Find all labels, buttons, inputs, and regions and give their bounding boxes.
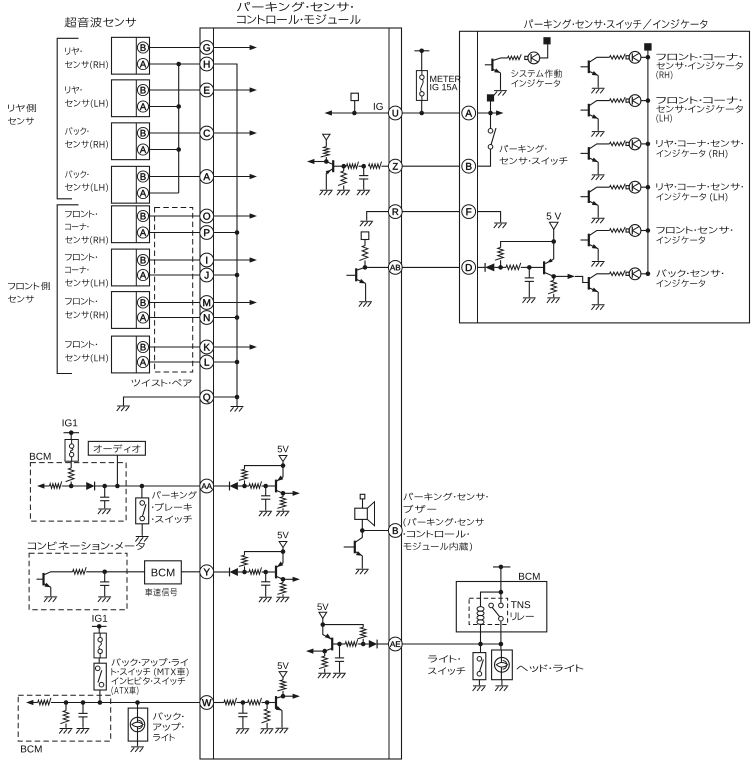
junction 5V node Y	[281, 549, 286, 554]
feed stub IG1 lower	[92, 625, 107, 627]
transistor collector AA	[276, 490, 283, 493]
wire sensor B to pin O	[148, 215, 199, 217]
junction A common top	[176, 62, 181, 67]
transistor Q-led rear corner RH emitter with arrow	[589, 158, 598, 162]
label METER	[430, 76, 460, 82]
label BCM right	[519, 573, 540, 580]
wire sensor A(back LH) to common	[148, 192, 178, 194]
wire lamp to ground	[137, 741, 139, 746]
wire D output arrow to LED6 base	[554, 275, 569, 277]
transistor Q-led back emitter with arrow	[589, 288, 598, 292]
wire relay output to head light	[500, 621, 502, 650]
junction A back RH	[176, 147, 181, 152]
transistor Q-AB emitter with arrow	[356, 279, 365, 283]
label IG1 lower	[93, 615, 108, 622]
feed stub TNS	[493, 566, 510, 568]
ground R interior	[360, 221, 373, 226]
label head light	[516, 664, 583, 672]
feed stub with junction	[414, 50, 429, 52]
label front side sensors line1	[8, 282, 50, 290]
junction shield at P	[235, 230, 240, 235]
transistor Q-AB base stub	[346, 274, 356, 276]
transistor Q-led front corner RH base bar	[588, 61, 590, 74]
wire node to emitter	[553, 242, 555, 260]
ground light switch	[473, 686, 486, 691]
LED system indicator	[528, 52, 540, 64]
wire fuse to switch	[98, 658, 100, 663]
module pin K	[200, 340, 214, 354]
resistor Z series 2	[369, 162, 382, 169]
indicator pin B	[462, 159, 476, 173]
wire	[243, 702, 248, 704]
label front corner sensor LH line2	[65, 266, 88, 273]
label system indicator line2	[511, 79, 560, 87]
label rear sensor LH line2	[65, 99, 108, 107]
wire feedback resistor	[500, 260, 502, 267]
capacitor meter filter	[104, 572, 106, 582]
wire fuse to resistor	[70, 461, 72, 468]
transistor Q-meter base bar	[42, 573, 44, 586]
wire pin AB to pin D	[402, 266, 460, 268]
wire LED to common line	[641, 273, 648, 275]
transistor Q-meter emitter with arrow	[44, 584, 51, 588]
wire	[62, 485, 86, 487]
switch contact lower	[140, 516, 145, 521]
wire buzzer node to pin B	[362, 530, 389, 532]
junction LED common front corner LH	[646, 98, 651, 103]
capacitor W ext filter	[82, 703, 84, 714]
5V supply triangle D	[549, 222, 558, 229]
LED common supply line	[647, 50, 649, 273]
transistor Q-AE collector	[325, 648, 333, 651]
wire triangle to resistor	[325, 140, 327, 147]
label BCM mid	[152, 569, 175, 577]
ground emitter resistor Y	[276, 597, 289, 602]
capacitor D filter	[528, 267, 530, 278]
transistor Q-led front corner RH emitter with arrow	[589, 71, 598, 75]
parking sensor control module box	[200, 28, 402, 759]
ground W pulldown	[260, 729, 273, 734]
wire sensor B to pin G	[148, 47, 199, 49]
module pin B	[388, 524, 402, 538]
resistor feedback Y	[239, 555, 247, 566]
switch blade light switch	[480, 660, 484, 672]
wire pin Z to pin B	[402, 165, 460, 167]
wire pin H interior to shield line	[214, 64, 237, 397]
label front corner sensor LH line1	[65, 253, 97, 260]
module pin AA	[200, 479, 214, 493]
junction AE light switch	[478, 642, 483, 647]
capacitor BCM filter	[104, 486, 106, 497]
wire square to IG wire	[354, 101, 356, 113]
label IG 15A	[430, 84, 457, 90]
wire emitter arrow out	[283, 492, 295, 494]
junction Z base resistor	[341, 164, 346, 169]
audio unit box	[88, 441, 145, 455]
ground led driver front corner RH	[591, 88, 604, 93]
label twisted pair	[132, 379, 192, 386]
label parking sensor switch line2	[500, 157, 568, 165]
wire sensor B to pin E	[148, 89, 199, 91]
BCM dashed box upper	[30, 463, 126, 521]
transistor Q-led front base stub	[581, 239, 589, 241]
wire sensor B to pin M	[148, 302, 199, 304]
switch contact lower	[488, 145, 493, 150]
wire resistor to AB node	[364, 261, 366, 268]
resistor Z series 1	[347, 162, 359, 169]
module right connector strip line	[388, 28, 390, 759]
junction AE input node	[361, 642, 366, 647]
module pin C	[200, 126, 214, 140]
wire triangle to node	[553, 229, 555, 241]
wire diode to node	[238, 571, 245, 573]
transistor Q-sys base bar	[491, 59, 493, 71]
label indicator rear corner LH line2	[656, 193, 727, 202]
transistor base bar Y	[275, 566, 277, 579]
resistor AE emitter	[319, 656, 327, 669]
ground AE emitter resistor	[318, 673, 331, 678]
feed stub IG1	[64, 432, 80, 434]
junction AE cap node	[337, 642, 342, 647]
combination meter dashed box	[29, 553, 127, 610]
junction cap node AA	[263, 484, 268, 489]
buzzer speaker body	[355, 508, 368, 519]
junction shield at L	[235, 360, 240, 365]
label rear sensor LH line1	[65, 86, 82, 94]
wire LED to common line	[641, 56, 648, 58]
wire	[51, 702, 200, 704]
wire A node to switch contact	[490, 113, 492, 129]
switch blade parking sensor switch	[491, 128, 496, 145]
wire emitter to ground	[50, 587, 52, 596]
ground AE filter cap	[333, 673, 346, 678]
page connector square A	[487, 94, 494, 101]
module pin Z	[388, 159, 402, 173]
label audio	[94, 444, 141, 453]
label indicator front corner RH line1	[656, 53, 741, 60]
wire divider to base	[267, 702, 276, 704]
switch/indicator unit box	[460, 31, 750, 323]
wire pin AE to light switch node	[402, 643, 501, 645]
wire cap node to base	[332, 643, 339, 645]
relay coil TNS	[477, 607, 484, 612]
wire speaker to node	[361, 519, 363, 530]
wire input node to series resistor	[245, 571, 250, 573]
ultrasonic back sensor LH box with terminals B A	[112, 166, 150, 203]
label indicator rear corner RH line2	[656, 149, 727, 158]
resistor series Y	[249, 567, 262, 574]
junction LED common front corner RH	[646, 55, 651, 60]
resistor emitter AA	[277, 497, 285, 509]
resistor AE series	[345, 639, 358, 646]
5V supply triangle AE	[319, 612, 327, 618]
wire resistor to collector node	[325, 157, 327, 162]
wire resistor to cap node	[262, 485, 266, 487]
junction buzzer node	[360, 528, 365, 533]
5V supply triangle AA	[279, 456, 287, 462]
wire stub to fuse	[70, 433, 72, 440]
resistor D output pulldown	[548, 280, 556, 293]
module pin AB	[388, 261, 402, 275]
module pin W	[200, 696, 214, 710]
junction W collector node	[281, 694, 286, 699]
wire W main	[32, 702, 38, 704]
resistor W collector pullup	[277, 680, 285, 691]
wire 5V rail to feedback resistor	[323, 625, 363, 628]
junction D output node	[551, 274, 556, 279]
5V supply triangle W	[279, 672, 287, 678]
wire collector node to left arrow	[313, 161, 326, 163]
wire switch to pin B wire	[478, 149, 491, 166]
resistor led rear corner RH	[610, 140, 626, 145]
wire emitter to resistor	[282, 579, 284, 582]
label parking sensor switch line1	[500, 145, 547, 153]
wire sensor B to pin C	[148, 132, 199, 134]
ultrasonic front sensor LH box with terminals B A	[112, 336, 150, 373]
transistor Q-led front corner LH emitter with arrow	[589, 114, 598, 118]
label indicator front corner LH line3	[656, 114, 671, 122]
signal arrow inside module at pin O	[214, 215, 252, 217]
wire pin Q exterior to ground	[124, 397, 200, 406]
label parking brake switch line2	[152, 503, 192, 511]
indicator pin F	[462, 205, 476, 219]
transistor Q-led front base bar	[588, 234, 590, 247]
wire pin A to arrow	[478, 112, 498, 114]
wire to backup lamp	[137, 703, 139, 709]
label front sensor LH line2	[65, 354, 108, 362]
resistor W ext series	[38, 698, 51, 705]
switch contact upper	[488, 129, 493, 134]
wire	[344, 165, 347, 167]
wire to pin Z	[382, 165, 390, 167]
wire emitter to ground	[365, 283, 367, 301]
label indicator front corner LH line2	[656, 105, 742, 113]
label rear sensor RH line2	[65, 61, 108, 69]
wire emitter to resistor	[324, 651, 326, 656]
ground shield interior	[230, 407, 243, 412]
ground Q exterior	[117, 406, 130, 411]
page connector square system indicator	[543, 37, 550, 44]
label backup light line3	[153, 734, 175, 741]
ground Z filter cap	[357, 190, 370, 195]
backup light switch box	[94, 663, 106, 690]
junction LED common back	[646, 272, 651, 277]
wire pin W to resistor	[214, 702, 224, 704]
transistor Q-led rear corner RH collector	[589, 144, 610, 149]
junction TNS coil feed	[499, 590, 504, 595]
wire	[86, 571, 144, 573]
wire emitter arrow out	[283, 578, 295, 580]
resistor W series 2	[248, 698, 262, 705]
wire triangle to resistor	[282, 677, 284, 680]
junction AE head light	[499, 642, 504, 647]
wire fuse to feed stub	[421, 51, 423, 71]
wire switch to W wire	[99, 690, 101, 703]
wire sensor A to pin P	[148, 232, 199, 234]
junction emitter node Y	[281, 577, 286, 582]
junction A rear LH	[176, 104, 181, 109]
transistor Q-W base bar	[275, 696, 277, 709]
junction emitter node AA	[281, 491, 286, 496]
buzzer speaker horn	[367, 502, 374, 526]
module pin N	[200, 311, 214, 325]
wire pin F to ground	[478, 212, 501, 223]
wire sensor B to pin A	[148, 176, 199, 178]
wire resistor to AA wire	[70, 482, 72, 486]
relay blade TNS	[492, 607, 500, 617]
indicator pin A	[462, 106, 476, 120]
resistor led back	[610, 270, 626, 275]
junction AE 5V node	[321, 622, 326, 627]
transistor Q-D emitter with PNP arrow	[545, 259, 553, 264]
wire Z base to resistor net	[333, 165, 344, 167]
wire lamp stem	[137, 708, 139, 741]
wire triangle to rail node	[322, 617, 324, 624]
label front corner sensor RH line3	[65, 236, 108, 244]
label 5 V	[547, 213, 562, 220]
wire emitter to ground	[500, 73, 502, 90]
junction cap node Y	[263, 570, 268, 575]
label combination meter	[28, 542, 145, 551]
wire cap node to base	[266, 485, 276, 487]
resistor system indicator	[508, 54, 522, 59]
transistor Q-sys emitter with arrow	[492, 69, 500, 73]
label front corner sensor RH line1	[65, 210, 97, 217]
transistor Q-meter base stub	[37, 578, 44, 580]
wire resistor to ground	[282, 594, 284, 596]
ground W emitter	[275, 728, 288, 733]
ground W ext cap	[76, 729, 89, 734]
LED indicator front corner RH	[629, 51, 641, 63]
resistor W pulldown	[262, 709, 270, 723]
module pin Q	[200, 390, 214, 404]
label rear side sensors line1	[8, 104, 36, 112]
label indicator rear corner LH line1	[656, 183, 743, 191]
wire feed to coil	[481, 592, 501, 607]
junction LED common rear corner RH	[646, 142, 651, 147]
transistor Q-Z collector	[326, 162, 333, 165]
ground backup lamp	[131, 747, 144, 752]
transistor Q-sys base stub	[485, 64, 493, 66]
junction W cap node	[241, 700, 246, 705]
label buzzer line1	[404, 493, 488, 501]
ground AB emitter	[359, 302, 372, 307]
head light box	[492, 650, 513, 680]
label backup light line2	[153, 723, 184, 731]
module pin U	[388, 106, 402, 120]
5V label AE circuit	[317, 603, 328, 610]
LED indicator front	[629, 225, 641, 237]
module pin J	[200, 268, 214, 282]
transistor Q-led rear corner LH emitter with arrow	[589, 201, 598, 205]
label front sensor RH line2	[65, 311, 108, 319]
transistor Q-led back base bar	[588, 277, 590, 290]
wire LED to common line	[641, 230, 648, 232]
backup lamp box	[128, 708, 148, 741]
label indicator front line2	[656, 236, 705, 244]
resistor feedback AA	[239, 469, 247, 480]
transistor Q-led front corner LH collector	[589, 101, 610, 106]
label ultrasonic sensor	[65, 17, 137, 27]
module pin A	[200, 170, 214, 184]
lamp backup light	[130, 717, 144, 731]
resistor led rear corner LH	[610, 184, 626, 189]
wire sensor A(back RH) to common	[148, 149, 178, 151]
wire emitter to ground	[597, 292, 599, 304]
wire resistor to ground	[324, 669, 326, 673]
wire emitter to ground	[597, 205, 599, 217]
ground filter cap AA	[259, 511, 272, 516]
wire sensor A to pin N	[148, 317, 199, 319]
label backup switch line1	[112, 658, 189, 666]
label rear side sensors line2	[8, 117, 34, 124]
transistor Q-sys collector	[492, 58, 507, 61]
junction shield at N	[235, 315, 240, 320]
wire	[358, 643, 364, 645]
ground parking brake switch	[135, 537, 148, 542]
junction LED common rear corner LH	[646, 185, 651, 190]
wire light switch to ground	[478, 680, 480, 686]
signal arrow inside module at pin I	[214, 259, 252, 261]
signal arrow inside module at pin C	[214, 132, 252, 134]
ground F	[494, 223, 507, 228]
5V supply triangle Y	[279, 542, 287, 548]
transistor Q-D collector	[544, 272, 554, 276]
capacitor AE filter	[339, 644, 341, 658]
label TNS line2	[511, 612, 534, 620]
transistor Q-led front corner LH base stub	[581, 109, 589, 111]
wire feedback resistor to input node	[244, 566, 246, 572]
transistor Q-Z base bar	[332, 160, 334, 172]
wire triangle to node	[282, 547, 284, 552]
wire resistor to collector node	[282, 691, 284, 696]
junction W ext r	[64, 700, 69, 705]
junction D 5V node	[551, 239, 556, 244]
ultrasonic rear sensor LH box with terminals B A	[112, 80, 150, 117]
transistor Q-led front corner LH base bar	[588, 104, 590, 117]
supply triangle Z circuit	[323, 134, 330, 140]
light switch box	[473, 653, 486, 680]
junction Z filter cap	[361, 164, 366, 169]
wire square to speaker	[362, 499, 364, 508]
label backup light line1	[153, 712, 184, 720]
wire base node to bar	[529, 266, 544, 268]
wire BCM to pin Y	[181, 571, 199, 573]
label back sensor RH line2	[65, 140, 108, 148]
label parking sensor control module line1	[237, 2, 353, 12]
page connector square LED supply	[644, 43, 651, 50]
wire diode to node	[494, 266, 500, 268]
label indicator back line1	[656, 269, 723, 277]
ground head light	[495, 686, 508, 691]
label front side sensors line2	[8, 295, 34, 302]
diode input Y	[214, 571, 230, 573]
fuse IG1 lower	[94, 633, 106, 658]
label indicator rear corner RH line1	[656, 140, 743, 148]
transistor Q-led front corner RH base stub	[581, 66, 589, 68]
label parking sensor control module line2	[237, 14, 361, 24]
ground meter filter cap	[98, 597, 111, 602]
wire fuse to U-A wire	[421, 100, 423, 113]
module pin AE	[388, 637, 402, 651]
wire to parking brake switch	[141, 486, 143, 498]
ground led driver back	[591, 305, 604, 310]
transistor Q-AE emitter from 5V with PNP arrow	[323, 625, 332, 640]
wire switch to ground	[141, 524, 143, 536]
resistor series AA	[249, 481, 262, 488]
wire head light to ground	[501, 680, 503, 686]
label back sensor LH line2	[65, 183, 108, 191]
